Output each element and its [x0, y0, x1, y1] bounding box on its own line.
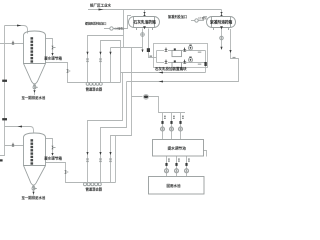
svg-text:至一期排泥水池: 至一期排泥水池	[22, 95, 46, 100]
svg-text:凝水调节箱: 凝水调节箱	[44, 156, 62, 161]
svg-text:石灰乳投加装置撬块: 石灰乳投加装置撬块	[154, 66, 187, 71]
svg-text:(计量泵): (计量泵)	[115, 27, 125, 31]
svg-text:至一期排泥水池: 至一期排泥水池	[22, 195, 46, 200]
svg-text:提水调节池: 提水调节池	[167, 146, 187, 151]
svg-text:絮凝剂投加口: 絮凝剂投加口	[168, 14, 187, 19]
svg-text:回用水池: 回用水池	[167, 183, 181, 188]
svg-text:管道混合器: 管道混合器	[86, 186, 103, 191]
svg-text:缓蚀阻垢剂投加口: 缓蚀阻垢剂投加口	[85, 20, 106, 25]
svg-text:管道混合器: 管道混合器	[86, 87, 103, 92]
svg-text:凝水调节箱: 凝水调节箱	[44, 56, 62, 61]
svg-text:石灰乳溶药箱: 石灰乳溶药箱	[133, 20, 156, 25]
svg-text:接厂区工业水: 接厂区工业水	[90, 2, 111, 7]
svg-text:絮凝剂溶药箱: 絮凝剂溶药箱	[210, 20, 232, 25]
svg-text:(计量泵): (计量泵)	[198, 16, 207, 20]
